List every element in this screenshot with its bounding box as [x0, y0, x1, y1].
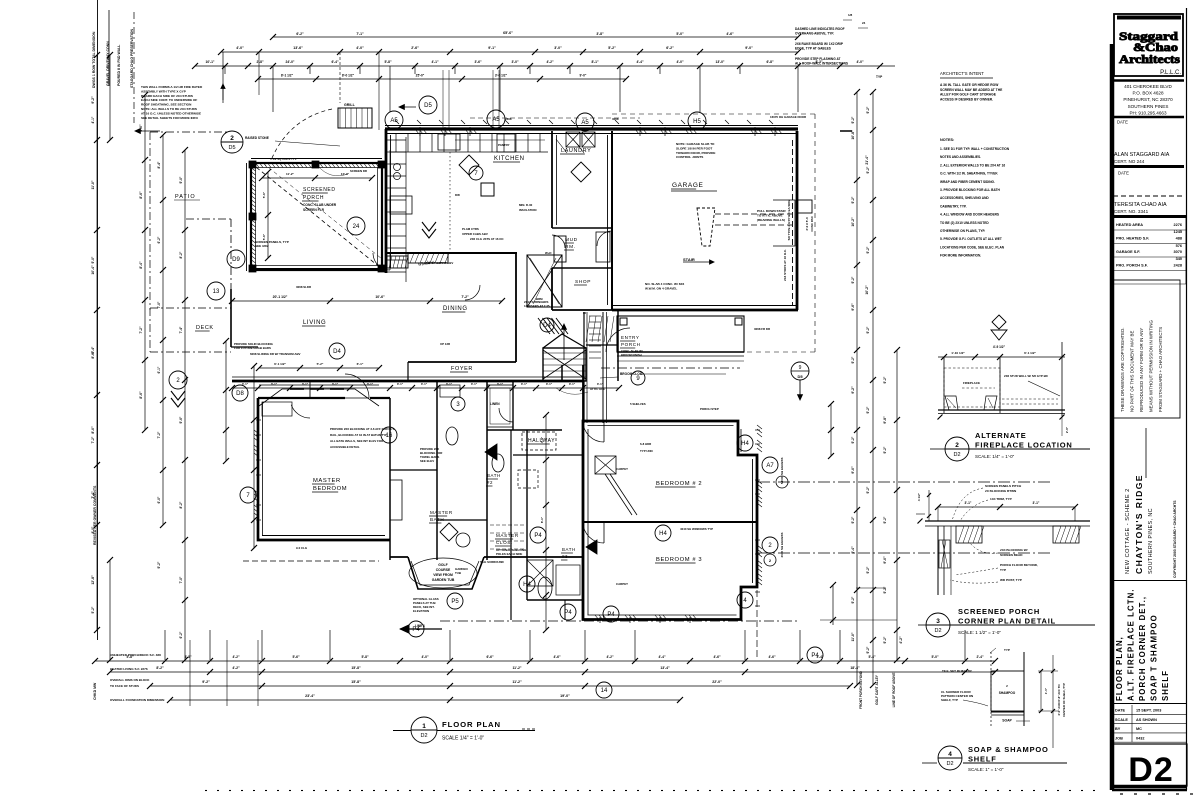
svg-text:9'-2": 9'-2": [883, 516, 887, 523]
svg-text:D2: D2: [420, 733, 427, 739]
svg-text:GOLF CART ALLEY: GOLF CART ALLEY: [875, 674, 879, 705]
svg-text:3'-1": 3'-1": [471, 382, 478, 386]
svg-text:SHELF: SHELF: [1161, 670, 1170, 701]
svg-text:ROOF SHEATHING, SEE SECTION: ROOF SHEATHING, SEE SECTION: [141, 103, 192, 107]
svg-text:2: 2: [1006, 684, 1008, 688]
svg-text:SHELF, TYP: SHELF, TYP: [941, 698, 958, 702]
svg-text:3'-8": 3'-8": [184, 655, 192, 659]
svg-text:5. PROVIDE G.F.I. OUTLETS AT: 5. PROVIDE G.F.I. OUTLETS AT ALL WET: [940, 237, 1002, 241]
svg-text:7'-2": 7'-2": [461, 295, 469, 299]
svg-text:5'-0": 5'-0": [931, 655, 939, 659]
svg-text:9'-2": 9'-2": [866, 486, 870, 493]
svg-text:6'-1 1/2": 6'-1 1/2": [1024, 351, 1036, 355]
svg-text:11'-2": 11'-2": [286, 172, 295, 176]
svg-text:ACCESSORIES, SHELVING AND: ACCESSORIES, SHELVING AND: [940, 196, 989, 200]
svg-text:BROOM CLOS.: BROOM CLOS.: [620, 372, 643, 376]
svg-text:ALL ROOF-WALL INTERSECTIONS: ALL ROOF-WALL INTERSECTIONS: [795, 61, 848, 65]
svg-text:9'-2": 9'-2": [851, 386, 855, 394]
svg-text:4'-2": 4'-2": [232, 666, 240, 670]
svg-text:PINEHURST, NC 28370: PINEHURST, NC 28370: [1123, 97, 1173, 102]
svg-text:16: 16: [386, 433, 393, 439]
svg-text:19'-0": 19'-0": [560, 694, 570, 698]
svg-text:CERT. NO 244: CERT. NO 244: [1114, 159, 1145, 164]
svg-text:4040 SH WINDOWS TYP: 4040 SH WINDOWS TYP: [680, 527, 713, 531]
svg-text:SOAP T SHAMPOO: SOAP T SHAMPOO: [1150, 614, 1159, 701]
svg-text:21'-4": 21'-4": [865, 155, 869, 165]
svg-text:1'-0": 1'-0": [1044, 687, 1048, 694]
svg-text:9'-2": 9'-2": [866, 166, 870, 173]
svg-text:3'-8": 3'-8": [596, 32, 604, 36]
svg-text:RM.: RM.: [565, 244, 576, 250]
svg-text:2'-6": 2'-6": [411, 46, 419, 50]
svg-text:ALTERNATE: ALTERNATE: [975, 431, 1027, 440]
svg-text:4'-2": 4'-2": [899, 636, 903, 644]
svg-text:LAUNDRY: LAUNDRY: [561, 148, 591, 154]
svg-text:3'-1": 3'-1": [521, 382, 528, 386]
svg-text:5'-0": 5'-0": [676, 32, 684, 36]
svg-text:TYP: TYP: [1000, 568, 1006, 572]
svg-text:STAGGARD CHAO PRESERVATION: STAGGARD CHAO PRESERVATION: [130, 28, 134, 88]
svg-text:D4: D4: [333, 349, 341, 355]
svg-text:4040 SH EGRESS: 4040 SH EGRESS: [780, 457, 784, 482]
svg-text:CHAYTON'S RIDGE: CHAYTON'S RIDGE: [1134, 474, 1144, 574]
svg-text:11'-2": 11'-2": [512, 680, 522, 684]
svg-text:8'-0": 8'-0": [91, 426, 95, 434]
svg-text:9'-2": 9'-2": [866, 106, 870, 113]
svg-text:FIREPLACE LOCATION: FIREPLACE LOCATION: [975, 441, 1073, 450]
svg-text:SCALE: 1" = 1'-0": SCALE: 1" = 1'-0": [968, 767, 1004, 772]
svg-text:COPYRIGHT 2003 STAGGARD + CHAO: COPYRIGHT 2003 STAGGARD + CHAO ARCHTS: [1173, 500, 1177, 578]
svg-text:6-8 HDR: 6-8 HDR: [640, 442, 652, 446]
svg-text:SCREEN WALL MAY BE ADDED AT TH: SCREEN WALL MAY BE ADDED AT THE: [940, 88, 1003, 92]
svg-text:MASTER: MASTER: [313, 478, 341, 484]
svg-text:AS SHOWN: AS SHOWN: [1136, 718, 1157, 722]
svg-text:P4: P4: [607, 612, 615, 618]
svg-text:OVERALL FOUNDATION DIMENSION: OVERALL FOUNDATION DIMENSION: [110, 698, 165, 702]
svg-text:23'-4": 23'-4": [305, 694, 315, 698]
svg-text:BEDROOM # 3: BEDROOM # 3: [656, 557, 702, 563]
svg-text:CARPET: CARPET: [616, 582, 628, 586]
svg-text:RAISED STONE: RAISED STONE: [245, 136, 269, 140]
svg-text:3'-0": 3'-0": [511, 60, 519, 64]
svg-text:SEE 3/D2: SEE 3/D2: [255, 244, 269, 248]
svg-text:GARAGE: GARAGE: [672, 182, 703, 189]
svg-text:6'-2": 6'-2": [179, 631, 183, 638]
svg-text:5'-6": 5'-6": [262, 191, 266, 198]
svg-text:DATE: DATE: [1118, 171, 1129, 176]
svg-text:6'-2": 6'-2": [157, 236, 161, 243]
svg-text:THIS WALL FORMS A 1/2 HR FIRE: THIS WALL FORMS A 1/2 HR FIRE RATED: [141, 85, 203, 89]
svg-text:W.W.M. ON 4 GRAVEL: W.W.M. ON 4 GRAVEL: [645, 286, 677, 290]
svg-text:FLOOR PLAN: FLOOR PLAN: [442, 720, 501, 729]
svg-text:2: 2: [176, 378, 180, 384]
svg-text:MASTER: MASTER: [496, 533, 519, 538]
svg-text:TUB: TUB: [455, 571, 461, 575]
svg-text:15'-8": 15'-8": [351, 666, 361, 670]
svg-text:HEATED AREA: HEATED AREA: [1116, 223, 1143, 227]
svg-text:20'-1 1/2": 20'-1 1/2": [273, 295, 288, 299]
svg-text:5'-2": 5'-2": [608, 46, 616, 50]
svg-text:POLES EACH SIDE: POLES EACH SIDE: [496, 552, 522, 556]
svg-text:9'-2": 9'-2": [851, 116, 855, 123]
svg-text:P.L.L.C.: P.L.L.C.: [1160, 70, 1181, 76]
svg-text:7'-2": 7'-2": [157, 431, 161, 438]
svg-text:340: 340: [1176, 257, 1182, 261]
svg-text:10'-4": 10'-4": [91, 265, 95, 275]
svg-text:SHAMPOO: SHAMPOO: [999, 691, 1016, 695]
svg-text:5/8 TYPE X GYP BD EA SIDE: 5/8 TYPE X GYP BD EA SIDE: [787, 200, 791, 241]
svg-text:SHELF: SHELF: [968, 755, 997, 764]
svg-text:10'-0": 10'-0": [341, 172, 350, 176]
svg-text:ALL BATH WALLS, SEE INT ELEV F: ALL BATH WALLS, SEE INT ELEV FOR: [330, 439, 384, 443]
svg-text:P5: P5: [451, 599, 459, 605]
svg-text:11'-2": 11'-2": [512, 666, 521, 670]
svg-text:9'-0": 9'-0": [91, 256, 95, 263]
svg-text:NOTE: GARAGE SLAB TO: NOTE: GARAGE SLAB TO: [676, 142, 715, 146]
svg-text:KITCHEN: KITCHEN: [494, 156, 525, 162]
svg-text:FOYER: FOYER: [451, 366, 473, 372]
svg-text:OTHERWISE ON PLANS, TYP.: OTHERWISE ON PLANS, TYP.: [940, 229, 985, 233]
svg-text:HALLWAY: HALLWAY: [528, 438, 555, 444]
svg-text:1/8: 1/8: [848, 13, 853, 17]
svg-text:MIN. R-30: MIN. R-30: [519, 203, 533, 207]
svg-text:6'-1": 6'-1": [357, 362, 364, 366]
svg-text:13: 13: [213, 289, 220, 295]
svg-text:PROVIDE STEP FLASHING AT: PROVIDE STEP FLASHING AT: [795, 57, 841, 61]
svg-text:2. ALL EXTERIOR WALLS TO BE 2: 2. ALL EXTERIOR WALLS TO BE 2X4 AT 16: [940, 163, 1005, 167]
svg-text:O.C. WITH 1/2 IN. SHEATHING, T: O.C. WITH 1/2 IN. SHEATHING, TYVEK: [940, 172, 998, 176]
svg-text:6068 SLIDING DR W/ TRANSOM ABV: 6068 SLIDING DR W/ TRANSOM ABV: [250, 352, 301, 356]
svg-text:TILE, SET IN MASTIC: TILE, SET IN MASTIC: [942, 669, 973, 673]
svg-text:ATTIC ACC: ATTIC ACC: [590, 387, 606, 391]
svg-text:9'-2": 9'-2": [851, 436, 855, 443]
svg-text:10'-2": 10'-2": [865, 285, 869, 295]
svg-text:7'-2": 7'-2": [91, 436, 95, 443]
svg-text:8'-4": 8'-4": [139, 261, 143, 269]
svg-text:13'-4": 13'-4": [660, 666, 670, 670]
svg-text:6'-4": 6'-4": [331, 60, 339, 64]
svg-text:CENTER OF SHELF, TYP: CENTER OF SHELF, TYP: [1062, 683, 1066, 717]
svg-text:FIREPLACE: FIREPLACE: [963, 381, 980, 385]
svg-text:FRONT PORCH BEYOND: FRONT PORCH BEYOND: [859, 670, 863, 709]
svg-text:3'-1": 3'-1": [546, 382, 553, 386]
svg-text:EACH SIDE CONT. TO UNDERSIDE O: EACH SIDE CONT. TO UNDERSIDE OF: [141, 98, 197, 102]
svg-text:9'-2": 9'-2": [883, 446, 887, 453]
svg-text:8'-1": 8'-1": [591, 60, 599, 64]
svg-text:(BEARING WALLS): (BEARING WALLS): [757, 218, 785, 222]
svg-text:DINING: DINING: [443, 306, 468, 312]
svg-text:COURSE: COURSE: [436, 568, 451, 572]
svg-text:SCREEN BEAD: SCREEN BEAD: [1000, 553, 1023, 557]
svg-text:9'-2": 9'-2": [851, 276, 855, 283]
svg-text:9'-4": 9'-4": [851, 546, 855, 554]
svg-text:ELEVATION: ELEVATION: [413, 609, 429, 613]
svg-text:4'-4": 4'-4": [658, 655, 666, 659]
svg-text:NO PART OF THIS DOCUMENT MAY B: NO PART OF THIS DOCUMENT MAY BE: [1130, 331, 1135, 412]
svg-text:4'-6": 4'-6": [726, 32, 734, 36]
svg-text:24: 24: [862, 21, 866, 25]
svg-text:ACCESS IF DESIRED BY OWNER.: ACCESS IF DESIRED BY OWNER.: [940, 97, 993, 101]
svg-text:GRAVEL DRIVEWAY CONN: GRAVEL DRIVEWAY CONN: [106, 41, 110, 86]
svg-text:SCREEN FLR: SCREEN FLR: [303, 208, 325, 212]
svg-text:2X4 BLOCKING W/: 2X4 BLOCKING W/: [1000, 548, 1028, 552]
svg-text:9'-2": 9'-2": [91, 96, 95, 104]
svg-text:LINE OF SOFFIT ABV: LINE OF SOFFIT ABV: [424, 261, 453, 265]
svg-text:12'-8": 12'-8": [91, 575, 95, 585]
svg-text:JOB: JOB: [1115, 736, 1123, 740]
svg-text:8'-0 1/2": 8'-0 1/2": [342, 74, 355, 78]
svg-text:9'-1": 9'-1": [488, 46, 496, 50]
svg-text:6'-8": 6'-8": [766, 60, 774, 64]
svg-text:9'-0": 9'-0": [745, 46, 753, 50]
svg-text:8'-6": 8'-6": [139, 391, 143, 399]
svg-text:9'-2": 9'-2": [866, 246, 870, 253]
svg-text:3'-1": 3'-1": [421, 382, 428, 386]
svg-text:13'-0": 13'-0": [716, 60, 725, 64]
svg-text:P4: P4: [534, 533, 542, 539]
svg-text:9'-6": 9'-6": [851, 303, 855, 311]
svg-text:8'-2": 8'-2": [179, 501, 183, 508]
svg-text:UNHEATED PORCH/DECK S.F. 488: UNHEATED PORCH/DECK S.F. 488: [110, 653, 161, 657]
svg-text:REPRODUCED IN ANY FORM OR IN A: REPRODUCED IN ANY FORM OR IN ANY: [1139, 328, 1144, 412]
svg-text:4'-0": 4'-0": [676, 60, 684, 64]
svg-text:9'-2": 9'-2": [866, 646, 870, 653]
svg-text:TO BE (2) 2X10 UNLESS NOTED: TO BE (2) 2X10 UNLESS NOTED: [940, 221, 989, 225]
svg-text:SCALE: 1/4" = 1'-0": SCALE: 1/4" = 1'-0": [975, 454, 1015, 459]
svg-text:4'-6": 4'-6": [713, 655, 721, 659]
svg-text:2: 2: [230, 135, 234, 142]
svg-text:4'-2": 4'-2": [232, 655, 240, 659]
svg-text:PATIO: PATIO: [175, 194, 196, 200]
svg-text:SCREENED PORCH: SCREENED PORCH: [958, 607, 1040, 616]
svg-text:5 SHELVES: 5 SHELVES: [630, 402, 646, 406]
svg-text:SOUTHERN PINES, NC: SOUTHERN PINES, NC: [1148, 508, 1154, 574]
svg-text:8'-4": 8'-4": [157, 161, 161, 168]
svg-text:5 1/2 SQ COLS TYP: 5 1/2 SQ COLS TYP: [270, 157, 297, 161]
svg-text:10'-6": 10'-6": [375, 295, 385, 299]
svg-text:2X4 STUDS AT 16 O.C.: 2X4 STUDS AT 16 O.C.: [783, 249, 787, 281]
svg-text:GARDEN TUB: GARDEN TUB: [432, 578, 455, 582]
svg-text:15'-8": 15'-8": [351, 680, 361, 684]
svg-text:NOTE: ALL WALLS TO BE 2X4 STUD: NOTE: ALL WALLS TO BE 2X4 STUDS: [141, 107, 197, 111]
svg-text:5'-8": 5'-8": [361, 655, 369, 659]
svg-text:CONC PAD: CONC PAD: [810, 216, 814, 231]
svg-text:3'-1": 3'-1": [965, 501, 972, 505]
svg-text:3'-0 1/2": 3'-0 1/2": [495, 74, 508, 78]
svg-text:TO FACE OF STUDS: TO FACE OF STUDS: [110, 684, 139, 688]
svg-text:9'-0": 9'-0": [883, 556, 887, 564]
svg-text:2'-4": 2'-4": [976, 655, 984, 659]
svg-text:1X4 TRIM, TYP: 1X4 TRIM, TYP: [990, 497, 1012, 501]
svg-text:AT 16 O.C. UNLESS NOTED OTHERW: AT 16 O.C. UNLESS NOTED OTHERWISE: [141, 111, 201, 115]
svg-text:3'-1": 3'-1": [397, 382, 404, 386]
svg-text:PORCH: PORCH: [303, 195, 324, 201]
svg-text:D5: D5: [424, 103, 432, 109]
svg-text:13 RISERS AT 7.25: 13 RISERS AT 7.25: [524, 304, 550, 308]
svg-text:MEANS WITHOUT PERMISSION IN WR: MEANS WITHOUT PERMISSION IN WRITING: [1149, 320, 1154, 412]
svg-text:1. SEE D1 FOR TYP. WALL + CON: 1. SEE D1 FOR TYP. WALL + CONSTRUCTION: [940, 147, 1010, 151]
svg-text:TYP UNO: TYP UNO: [640, 449, 654, 453]
svg-text:6'-1": 6'-1": [157, 366, 161, 373]
svg-text:WD POST, TYP: WD POST, TYP: [1000, 578, 1022, 582]
svg-text:SCREEN PANELS PITCH: SCREEN PANELS PITCH: [985, 484, 1022, 488]
svg-text:9'-2": 9'-2": [883, 586, 887, 593]
svg-text:#2: #2: [487, 480, 493, 485]
svg-text:1245: 1245: [1174, 230, 1182, 234]
svg-text:9-0 CLG: 9-0 CLG: [296, 546, 308, 550]
svg-text:401 CHEROKEE BLVD: 401 CHEROKEE BLVD: [1124, 84, 1172, 89]
svg-text:SCALE: SCALE: [1115, 718, 1128, 722]
svg-text:7'-4": 7'-4": [179, 326, 183, 333]
svg-text:9'-2": 9'-2": [157, 561, 161, 568]
svg-text:9'-2": 9'-2": [851, 196, 855, 203]
svg-text:SOAP: SOAP: [1002, 719, 1012, 723]
svg-text:ALLEY FOR GOLF CART STORAGE: ALLEY FOR GOLF CART STORAGE: [940, 93, 997, 97]
svg-text:3070: 3070: [1174, 250, 1182, 254]
svg-text:2X6 STUD WALL W/ 5/8 GYP BD: 2X6 STUD WALL W/ 5/8 GYP BD: [1004, 374, 1048, 378]
svg-text:ACCESSIBLE DETAIL: ACCESSIBLE DETAIL: [330, 445, 360, 449]
svg-text:D2: D2: [934, 628, 941, 634]
svg-text:10'-2": 10'-2": [851, 217, 855, 227]
svg-text:6'-6": 6'-6": [486, 655, 494, 659]
svg-text:3: 3: [936, 618, 940, 625]
svg-text:9'-2": 9'-2": [202, 680, 210, 684]
svg-text:W+D: W+D: [545, 251, 552, 255]
svg-text:3068 SLDR: 3068 SLDR: [296, 285, 312, 289]
svg-text:SCREEN DR: SCREEN DR: [350, 169, 368, 173]
svg-text:16070 OH GARAGE DOOR: 16070 OH GARAGE DOOR: [770, 115, 807, 119]
svg-text:D5: D5: [797, 374, 803, 379]
svg-text:9: 9: [799, 365, 802, 371]
svg-text:7'-1": 7'-1": [356, 32, 364, 36]
svg-text:5'-2": 5'-2": [91, 606, 95, 613]
svg-text:BROOM FINISH: BROOM FINISH: [621, 353, 642, 357]
svg-text:9'-2": 9'-2": [851, 516, 855, 523]
svg-text:TYP: TYP: [1004, 648, 1010, 652]
svg-text:9'-2": 9'-2": [866, 326, 870, 333]
svg-text:DWGS 1 ROW TOTAL DIMENSION: DWGS 1 ROW TOTAL DIMENSION: [92, 31, 96, 88]
svg-text:A7: A7: [766, 463, 774, 469]
svg-text:OVERHANG ABOVE, TYP.: OVERHANG ABOVE, TYP.: [795, 31, 834, 35]
svg-text:DATE: DATE: [1117, 120, 1128, 125]
svg-text:3'-6": 3'-6": [474, 60, 482, 64]
svg-text:9'-0": 9'-0": [179, 176, 183, 183]
svg-text:SCREENED: SCREENED: [303, 187, 336, 193]
svg-text:FOR FUTURE GRAB BARS: FOR FUTURE GRAB BARS: [234, 346, 271, 350]
svg-text:CHKD MW: CHKD MW: [93, 682, 97, 700]
svg-text:4'-9 1/2": 4'-9 1/2": [993, 345, 1006, 349]
svg-text:PRO. HEATED S.F.: PRO. HEATED S.F.: [1116, 237, 1149, 241]
svg-text:PORCH STEP: PORCH STEP: [700, 407, 719, 411]
svg-text:THESE DRAWINGS ARE COPYRIGHTED: THESE DRAWINGS ARE COPYRIGHTED.: [1120, 328, 1125, 413]
svg-text:9'-2": 9'-2": [851, 356, 855, 363]
svg-text:D8: D8: [236, 391, 244, 397]
svg-text:2X BLOCKING BTWN: 2X BLOCKING BTWN: [985, 489, 1017, 493]
svg-text:NOTES:: NOTES:: [940, 138, 954, 142]
svg-text:MUD: MUD: [565, 237, 578, 243]
svg-text:9'-0": 9'-0": [580, 74, 587, 78]
svg-text:ASSEMBLY WITH TYPE X GYP: ASSEMBLY WITH TYPE X GYP: [141, 89, 186, 93]
svg-text:GARAGE S.F.: GARAGE S.F.: [1116, 250, 1140, 254]
svg-text:4040 SH EGRESS: 4040 SH EGRESS: [780, 532, 784, 557]
svg-text:#3: #3: [562, 554, 568, 559]
svg-text:576: 576: [1176, 244, 1182, 248]
svg-text:24: 24: [353, 224, 360, 230]
svg-text:D4: D4: [543, 323, 551, 329]
svg-text:BOARD EACH SIDE OF 2X4 STUDS: BOARD EACH SIDE OF 2X4 STUDS: [141, 94, 193, 98]
svg-text:UP 13R: UP 13R: [440, 342, 451, 346]
svg-text:SEE DETAIL SHEETS FOR MORE INF: SEE DETAIL SHEETS FOR MORE INFO: [141, 116, 199, 120]
svg-text:3'-1": 3'-1": [569, 382, 576, 386]
svg-text:4: 4: [743, 598, 747, 604]
svg-text:UPPER CABS ABV: UPPER CABS ABV: [462, 232, 488, 236]
svg-text:P4: P4: [564, 610, 572, 616]
svg-text:1'-10 1/2": 1'-10 1/2": [951, 351, 965, 355]
svg-text:CABINETRY, TYP.: CABINETRY, TYP.: [940, 204, 967, 208]
svg-text:FROM STAGGARD + CHAO ARCHITECT: FROM STAGGARD + CHAO ARCHITECTS: [1158, 327, 1163, 412]
svg-text:4'-0" AND 6'-8" AFF TO: 4'-0" AND 6'-8" AFF TO: [1057, 684, 1061, 716]
svg-text:6'-4": 6'-4": [91, 346, 95, 353]
svg-text:TOWARD DOOR, PROVIDE: TOWARD DOOR, PROVIDE: [676, 151, 715, 155]
svg-text:4'-0": 4'-0": [236, 46, 244, 50]
svg-text:5'-4": 5'-4": [868, 655, 876, 659]
svg-text:7'-2": 7'-2": [139, 326, 143, 334]
svg-text:5'-8": 5'-8": [384, 60, 392, 64]
svg-text:MASTER: MASTER: [430, 510, 453, 515]
svg-text:4: 4: [948, 751, 952, 758]
svg-text:P.O. BOX 4628: P.O. BOX 4628: [1132, 91, 1164, 96]
svg-text:MC: MC: [1136, 727, 1142, 731]
svg-text:DATE: DATE: [1115, 709, 1126, 713]
svg-text:2428: 2428: [1174, 264, 1182, 268]
svg-text:D2: D2: [946, 761, 953, 767]
svg-text:FLOOR PLAN,: FLOOR PLAN,: [1115, 636, 1124, 701]
svg-text:HEATED LIVING S.F. 2276: HEATED LIVING S.F. 2276: [110, 667, 148, 671]
svg-text:9'-2": 9'-2": [883, 636, 887, 643]
svg-text:POURED 8 IN FND WALL: POURED 8 IN FND WALL: [117, 44, 121, 86]
svg-text:2: 2: [769, 558, 772, 563]
svg-text:2X6 CLG JSTS AT 16 OC: 2X6 CLG JSTS AT 16 OC: [470, 237, 504, 241]
svg-text:22'-0": 22'-0": [712, 680, 722, 684]
svg-text:5'-2": 5'-2": [317, 362, 324, 366]
svg-text:GRILL: GRILL: [344, 103, 356, 107]
svg-text:10'-1": 10'-1": [206, 60, 215, 64]
svg-text:7'-0": 7'-0": [179, 576, 183, 583]
svg-text:0432: 0432: [1136, 736, 1144, 740]
svg-text:2: 2: [955, 442, 959, 449]
svg-text:CARPET: CARPET: [616, 467, 628, 471]
svg-text:4'-0": 4'-0": [356, 46, 364, 50]
svg-text:4'-6": 4'-6": [553, 655, 561, 659]
svg-text:BY: BY: [1115, 727, 1121, 731]
svg-text:A5: A5: [581, 120, 589, 126]
svg-text:8'-1 1/2": 8'-1 1/2": [281, 74, 294, 78]
svg-text:SCALE: 1 1/2" = 1'-0": SCALE: 1 1/2" = 1'-0": [958, 630, 1001, 635]
svg-text:TYP: TYP: [876, 75, 883, 79]
svg-text:4'-2": 4'-2": [546, 60, 554, 64]
svg-text:18'-4": 18'-4": [850, 666, 860, 670]
svg-text:H5: H5: [693, 119, 701, 125]
svg-text:CLOS.: CLOS.: [496, 540, 513, 545]
svg-text:ALAN STAGGARD AIA: ALAN STAGGARD AIA: [1114, 152, 1170, 158]
svg-text:7'-4": 7'-4": [91, 491, 95, 499]
svg-text:3'-0": 3'-0": [554, 46, 562, 50]
svg-text:9'-2": 9'-2": [866, 566, 870, 573]
svg-text:D9: D9: [232, 257, 240, 263]
svg-text:488: 488: [1176, 237, 1182, 241]
svg-text:4 1/2": 4 1/2": [917, 492, 921, 501]
svg-text:LOCATIONS PER CODE, SEE ELEC.: LOCATIONS PER CODE, SEE ELEC. PLAN: [940, 245, 1005, 249]
